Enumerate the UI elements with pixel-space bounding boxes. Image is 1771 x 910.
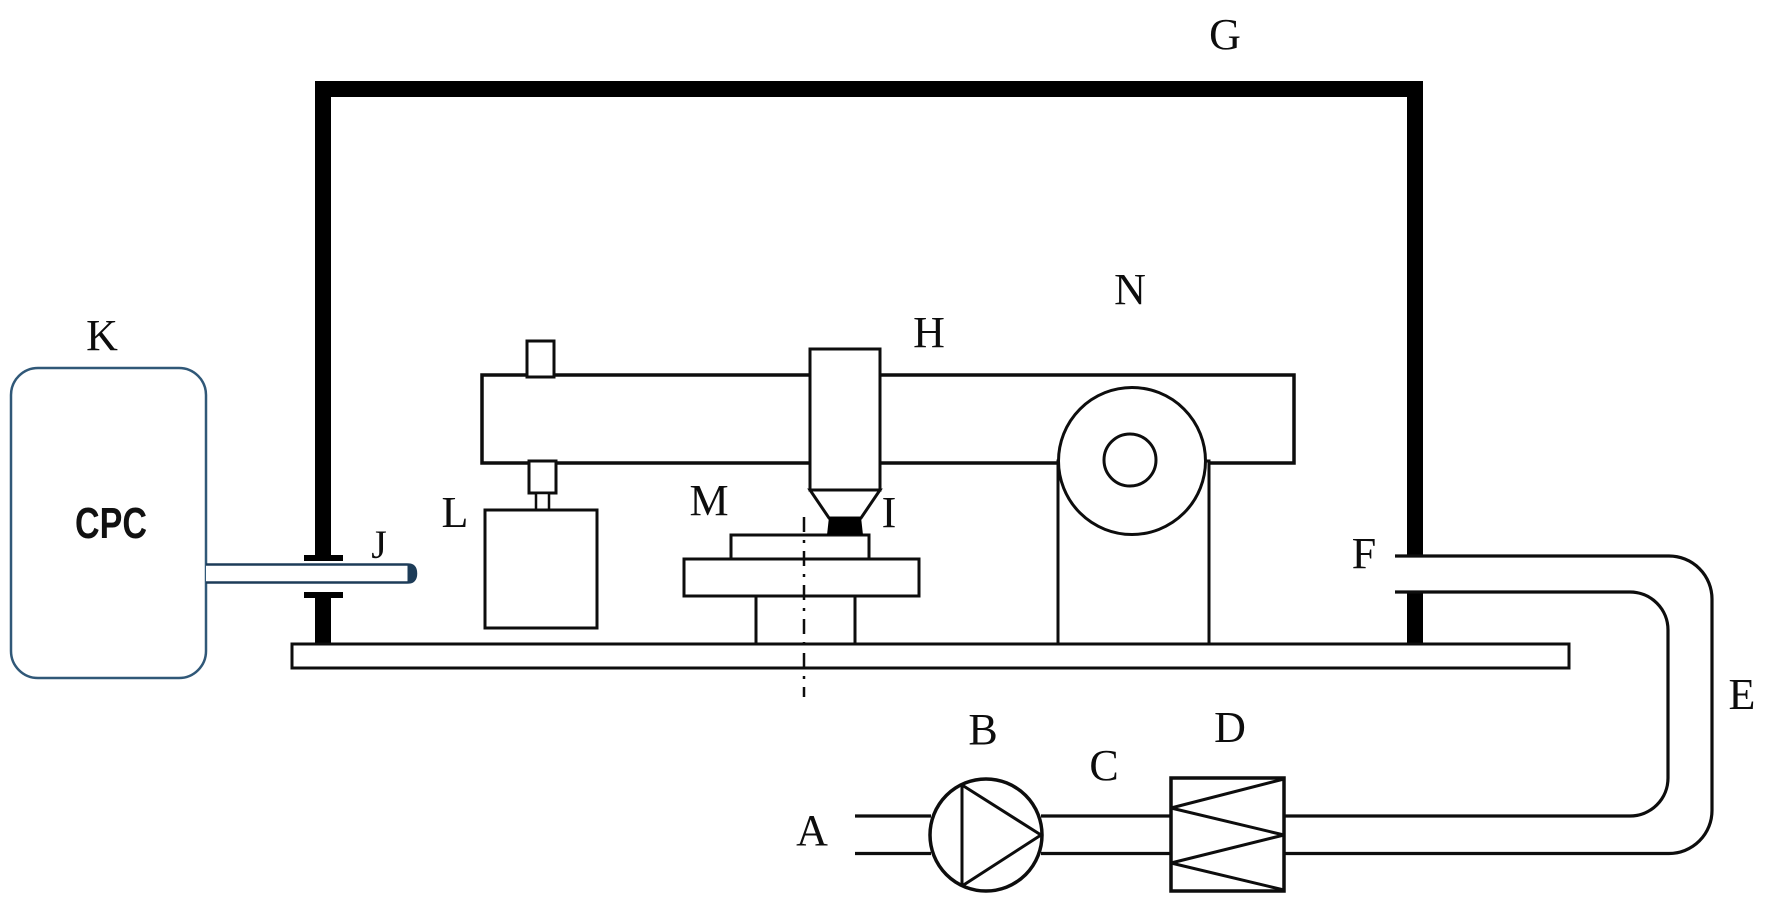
base plate	[292, 644, 1569, 668]
svg-text:F: F	[1352, 529, 1376, 578]
pipe C upper	[1041, 814, 1171, 817]
pump triangle	[962, 785, 1041, 886]
filter zigzag	[1171, 779, 1284, 890]
pipe C lower	[1041, 852, 1171, 855]
svg-text:H: H	[913, 308, 945, 357]
tool taper	[810, 490, 880, 518]
tool holder H	[810, 349, 880, 490]
duct outer line F to E	[1284, 556, 1712, 854]
tube end cap	[408, 564, 417, 584]
counterweight square on top of beam	[527, 341, 554, 377]
filter box D	[1171, 778, 1284, 891]
svg-text:J: J	[371, 522, 387, 567]
motor pedestal N	[1058, 461, 1209, 644]
rotation axis dash-dot line	[803, 517, 806, 697]
sample stage plate M	[684, 559, 919, 596]
inlet pipe upper line A	[855, 814, 931, 817]
chamber left wall lower segment	[315, 598, 331, 645]
tool tip I (black)	[827, 517, 863, 535]
svg-text:M: M	[689, 476, 728, 525]
svg-text:B: B	[968, 705, 997, 754]
svg-text:L: L	[442, 488, 469, 537]
sample top plate	[731, 535, 869, 559]
weight box L	[485, 510, 597, 628]
chamber right wall lower segment	[1407, 592, 1423, 645]
CPC box K	[11, 368, 206, 678]
hanger stub lower	[536, 493, 549, 510]
svg-text:N: N	[1114, 265, 1146, 314]
chamber left wall lower flange at J port	[304, 592, 343, 598]
hanger stub upper	[529, 461, 556, 493]
chamber left wall upper segment	[315, 81, 331, 555]
svg-text:E: E	[1729, 670, 1756, 719]
chamber right wall upper segment	[1407, 81, 1423, 556]
chamber left wall upper flange at J port	[304, 555, 343, 561]
stage pedestal	[756, 596, 855, 644]
inlet pipe lower line A	[855, 852, 931, 855]
svg-text:G: G	[1209, 10, 1241, 59]
chamber top wall G	[315, 81, 1423, 97]
svg-text:A: A	[796, 806, 828, 855]
sampling tube J	[206, 565, 416, 583]
duct inner line F to E	[1284, 592, 1668, 816]
svg-text:CPC: CPC	[75, 499, 147, 548]
beam (horizontal load arm)	[482, 375, 1294, 463]
svg-text:K: K	[86, 311, 118, 360]
pulley disc N	[1059, 388, 1206, 535]
svg-text:D: D	[1214, 703, 1246, 752]
svg-text:I: I	[882, 488, 897, 537]
svg-text:C: C	[1089, 741, 1118, 790]
pump circle B	[930, 779, 1042, 891]
pulley hub	[1104, 434, 1156, 486]
